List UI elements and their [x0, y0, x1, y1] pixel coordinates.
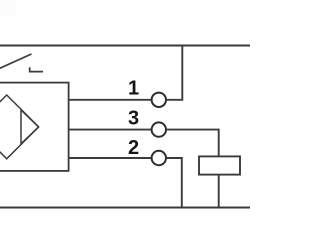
load resistor RL [199, 156, 240, 174]
sensor diamond symbol [0, 95, 39, 159]
corner artifact shading [0, 0, 16, 16]
wire terminal3 to load [166, 130, 219, 157]
terminal circle 2 [152, 151, 166, 165]
wire pin3 from box to terminal [69, 129, 152, 131]
svg-text:2: 2 [128, 137, 139, 159]
terminal circle 1 [152, 93, 166, 107]
sensor output triangle [21, 110, 39, 144]
sensor body box [0, 83, 69, 171]
wire pin2 from box to terminal [69, 157, 152, 159]
wire bottom return rail [0, 207, 250, 209]
wire load to bottom rail [218, 175, 220, 208]
wire pin1 from box to terminal [69, 99, 152, 101]
switch S1 actuator bracket [30, 67, 43, 71]
wire top supply rail [0, 45, 250, 47]
svg-text:3: 3 [128, 107, 139, 129]
wire terminal1 to top rail [166, 46, 182, 100]
terminal circle 3 [152, 122, 166, 136]
switch S1 contact blade [0, 54, 32, 70]
svg-text:1: 1 [128, 78, 139, 100]
wire terminal2 to bottom rail [166, 158, 182, 208]
